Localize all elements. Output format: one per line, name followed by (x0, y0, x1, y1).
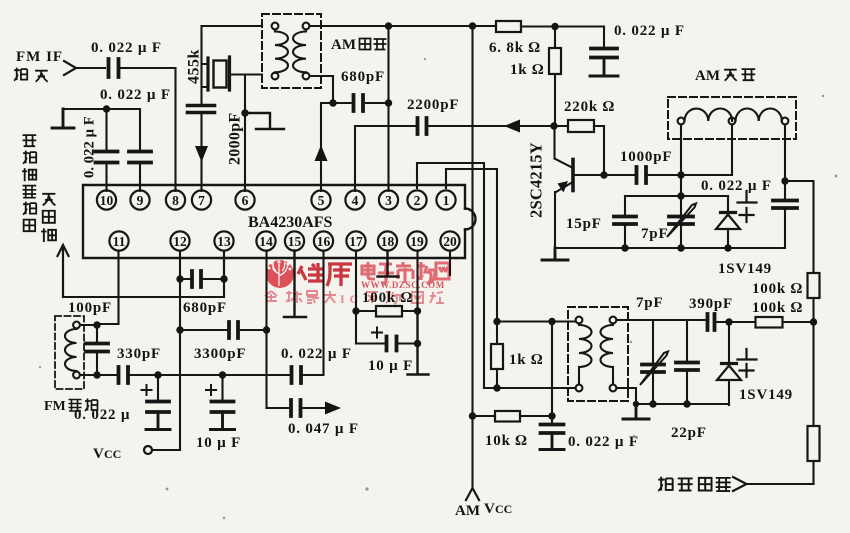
svg-text:7pF: 7pF (641, 226, 668, 242)
wire secondary top rail to 6.8k (310, 25, 497, 27)
node dot right (781, 177, 788, 184)
svg-text:CC: CC (495, 502, 512, 516)
svg-text:5: 5 (318, 193, 325, 208)
网 (412, 292, 423, 303)
ground pin18 (378, 251, 399, 277)
svg-text:AM: AM (695, 68, 720, 84)
electrolytic 10uF (221, 375, 223, 401)
node dot 100k junction (810, 318, 817, 325)
transformer AM IF secondary coil (293, 23, 309, 80)
AM antenna coil (678, 108, 789, 124)
svg-text:22pF: 22pF (671, 425, 707, 441)
label audio feedback vertical CJK (22, 135, 36, 231)
wire pin13/AGC row (63, 251, 224, 298)
svg-text:16: 16 (317, 234, 331, 249)
capacitor 3300pF (176, 326, 183, 333)
最 (307, 291, 319, 303)
stub pin20 (449, 251, 451, 276)
svg-text:0. 022 µ F: 0. 022 µ F (91, 40, 162, 56)
svg-text:1SV149: 1SV149 (739, 387, 793, 403)
svg-text:WWW.DZSC.COM: WWW.DZSC.COM (361, 280, 445, 290)
svg-text:100k Ω: 100k Ω (752, 300, 803, 316)
全球最大IC采购网站 row (265, 291, 336, 303)
node dot pin6 (241, 109, 248, 116)
resistor 100k pins17-19 (356, 310, 376, 312)
wire coil to nodes (80, 325, 97, 375)
resistor tuning divider vertical (812, 322, 814, 426)
电子市场网 (362, 262, 449, 284)
capacitor 0.022uF at pin9 (139, 109, 141, 191)
svg-text:10k Ω: 10k Ω (485, 433, 528, 449)
svg-text:1: 1 (443, 193, 450, 208)
pin 20 (440, 231, 459, 250)
node dot varactor line (677, 192, 684, 199)
varactor diode 1SV149 top (716, 191, 757, 248)
node dots on rail (621, 244, 628, 251)
svg-text:680pF: 680pF (341, 69, 385, 85)
resistor 1k bottom (496, 322, 498, 345)
capacitor 2000pF (188, 106, 215, 113)
transformer OSC right coil (600, 317, 616, 392)
wire antenna tap (681, 125, 732, 176)
resistor 220k feedback (554, 125, 568, 127)
大 (324, 291, 336, 303)
svg-text:14: 14 (259, 234, 273, 249)
pin 12 (170, 231, 189, 250)
全 (265, 291, 277, 302)
球 (286, 291, 302, 303)
ground pin15 (284, 251, 306, 318)
pin 14 (256, 231, 275, 250)
svg-text:6. 8k Ω: 6. 8k Ω (489, 40, 541, 56)
svg-text:19: 19 (410, 234, 424, 249)
wire secondary bottom to ground corner (617, 388, 637, 404)
capacitor 0.022uF at 10k with ground (551, 416, 553, 424)
wire antenna right terminal down (784, 125, 786, 201)
wire secondary top to tank (617, 319, 708, 321)
svg-text:3300pF: 3300pF (194, 346, 246, 362)
svg-text:13: 13 (217, 234, 231, 249)
node dot (103, 105, 110, 112)
capacitor 680pF top (354, 95, 364, 111)
Vcc terminal (144, 446, 152, 454)
svg-text:BA4230AFS: BA4230AFS (248, 214, 333, 231)
capacitor C 0.022uF top-left (109, 59, 119, 77)
pin 16 (314, 231, 333, 250)
网 (436, 263, 449, 279)
svg-text:IC: IC (340, 292, 363, 306)
svg-text:10 µ F: 10 µ F (196, 435, 241, 451)
node pins10/9 feedback wire (63, 108, 140, 110)
svg-text:100k Ω: 100k Ω (362, 290, 413, 306)
capacitor 390pF (708, 314, 715, 330)
pin 9 (130, 190, 149, 209)
resistor 100k vertical (808, 273, 820, 298)
wire pin11 to FM det tank (97, 251, 119, 325)
variable capacitor 7pF bottom (652, 320, 654, 364)
svg-text:100k Ω: 100k Ω (752, 281, 803, 297)
resonator 455k (202, 57, 263, 90)
capacitor 680pF pins12-13 (180, 251, 224, 280)
pin 8 (166, 190, 185, 209)
维库 (298, 263, 352, 286)
resistor 10k (473, 415, 496, 417)
wire varactor row (625, 195, 728, 197)
svg-text:2200pF: 2200pF (407, 97, 459, 113)
wire pin2 L line (417, 163, 484, 388)
node dot collector (550, 122, 557, 129)
维 (298, 263, 324, 281)
svg-text:FM: FM (44, 399, 66, 414)
wire secondary bottom to 680pF node (310, 76, 334, 103)
svg-text:390pF: 390pF (689, 296, 733, 312)
FM discriminator dashed box (55, 316, 84, 389)
node dot 1000pF junction (677, 171, 684, 178)
wire 2200pF to transistor node with left arrow (427, 125, 554, 127)
站 (430, 292, 444, 303)
varactor diode 1SV149 bottom (717, 322, 757, 405)
svg-text:AM: AM (455, 503, 480, 519)
svg-text:10 µ F: 10 µ F (368, 358, 413, 374)
wire pin19 (416, 251, 418, 312)
node dot 10k left (469, 412, 476, 419)
capacitor 330pF (119, 367, 129, 383)
采 (366, 291, 378, 303)
node dot 1k top (551, 23, 558, 30)
市 (396, 262, 413, 283)
pin 3 (379, 190, 398, 209)
svg-text:220k Ω: 220k Ω (564, 99, 615, 115)
wire pin12 to Vcc (153, 279, 181, 450)
node dot base (600, 171, 607, 178)
pin 5 (311, 190, 330, 209)
node dot 680pF right (385, 99, 392, 106)
wire AM Vcc vertical (471, 26, 473, 416)
svg-text:2: 2 (414, 193, 421, 208)
wire resonator right to pin6 (244, 75, 246, 192)
场 (418, 262, 435, 284)
svg-text:20: 20 (443, 234, 457, 249)
svg-text:4: 4 (352, 193, 359, 208)
terminal bar (audio feedback) (52, 109, 74, 128)
IC BA4230AFS box (83, 185, 476, 258)
pin 15 (285, 231, 304, 250)
electrolytic 10uF pins17-19 (356, 311, 386, 344)
svg-text:1k Ω: 1k Ω (509, 352, 543, 368)
ground stub near pin6 (245, 113, 284, 129)
svg-text:V: V (484, 501, 495, 517)
svg-text:15: 15 (288, 234, 302, 249)
capacitor 1000pF (604, 174, 635, 176)
capacitor 0.022uF to pin16 (292, 367, 302, 383)
capacitor 0.022uF at pin10 (105, 109, 107, 191)
svg-text:100pF: 100pF (68, 300, 112, 316)
svg-text:15pF: 15pF (566, 216, 602, 232)
capacitor 0.022uF top right with ground (603, 27, 605, 48)
node dots (493, 318, 500, 325)
库 (327, 264, 352, 286)
main audio rail (97, 374, 118, 376)
pin 6 (235, 190, 254, 209)
svg-text:3: 3 (385, 193, 392, 208)
svg-text:1000pF: 1000pF (620, 149, 672, 165)
resistor 1k top (554, 27, 556, 49)
pin 11 (109, 231, 128, 250)
svg-text:0. 022 µ F: 0. 022 µ F (82, 116, 98, 178)
FM discriminator coil (65, 322, 80, 379)
wire pin1 L line (446, 169, 497, 322)
svg-text:0. 047 µ F: 0. 047 µ F (288, 421, 359, 437)
wire to 100k chain (785, 181, 814, 273)
svg-text:V: V (93, 446, 104, 462)
svg-text:FM IF: FM IF (16, 49, 63, 65)
pin 1 (436, 190, 455, 209)
variable capacitor 7pF AM (669, 217, 693, 225)
FM IF input terminal (64, 61, 76, 75)
AM Vcc terminal (471, 416, 473, 489)
node dot 390pF junction (725, 318, 732, 325)
svg-text:11: 11 (113, 234, 126, 249)
tuning voltage terminal (733, 477, 747, 491)
pin 18 (378, 231, 397, 250)
wire pin14 / audio out (267, 251, 290, 409)
capacitor 0.022uF antenna (773, 201, 797, 209)
pin 19 (407, 231, 426, 250)
svg-text:6: 6 (242, 193, 249, 208)
wire resonator top rail (202, 26, 263, 105)
capacitor 100pF (96, 325, 98, 375)
svg-text:2000pF: 2000pF (227, 113, 244, 165)
svg-text:330pF: 330pF (117, 346, 161, 362)
pin 13 (214, 231, 233, 250)
svg-text:2SC4215Y: 2SC4215Y (527, 142, 546, 218)
svg-text:9: 9 (137, 193, 144, 208)
wire 2000pF to pin7 with arrow (200, 113, 202, 191)
svg-text:680pF: 680pF (183, 300, 227, 316)
子 (378, 264, 394, 283)
electrolytic 0.022u (157, 375, 159, 401)
svg-text:17: 17 (349, 234, 363, 249)
label tuning voltage (658, 477, 730, 491)
wire 1k-top node down (551, 322, 553, 417)
svg-text:8: 8 (172, 193, 179, 208)
wire pin3 vertical (387, 26, 389, 191)
AM antenna dashed box (668, 97, 796, 139)
transformer OSC dashed box (568, 307, 628, 401)
svg-text:AM: AM (331, 37, 356, 53)
wire C1 to pin8 corner (121, 68, 176, 191)
capacitor 2200pF (418, 118, 427, 134)
pin 10 (97, 190, 116, 209)
wire FM input to C1 (76, 67, 105, 69)
wire 2200pF row / pin4 (355, 126, 416, 191)
wire antenna left terminal down (680, 125, 682, 249)
capacitor 22pF (686, 320, 688, 362)
label to RF amp vertical CJK (41, 194, 56, 242)
wire primary bottom (484, 387, 576, 389)
ground pin19 chain (408, 311, 429, 375)
wire pin17 (355, 251, 357, 312)
pin 2 (407, 190, 426, 209)
svg-text:1SV149: 1SV149 (718, 261, 772, 277)
resistor 6.8k (496, 21, 521, 32)
svg-text:0. 022 µ F: 0. 022 µ F (100, 87, 171, 103)
pin 4 (345, 190, 364, 209)
wire node to pin5 with up arrow (321, 103, 333, 191)
capacitor 15pF (624, 196, 626, 216)
node dot 10k right (548, 412, 555, 419)
emitter ground rail (555, 247, 785, 249)
bottom tank rail (636, 403, 729, 405)
svg-text:12: 12 (173, 234, 187, 249)
pin 7 (192, 190, 211, 209)
购 (386, 292, 400, 304)
svg-text:10: 10 (100, 193, 114, 208)
svg-text:0. 022 µ F: 0. 022 µ F (614, 23, 685, 39)
node dot at x388 (385, 22, 392, 29)
node dot at x472 (469, 22, 476, 29)
node dot 680pF left (329, 99, 336, 106)
transformer AM IF dashed box (262, 14, 321, 88)
transformer AM IF primary coil (272, 23, 288, 80)
wire primary top to 1k node (497, 320, 576, 322)
resistor 100k horizontal (729, 321, 756, 323)
svg-text:0. 022 µ: 0. 022 µ (74, 407, 130, 423)
svg-text:7pF: 7pF (636, 295, 663, 311)
capacitor 0.047uF with arrow (291, 400, 301, 416)
svg-text:0. 022 µ F: 0. 022 µ F (281, 346, 352, 362)
svg-text:CC: CC (104, 447, 121, 461)
svg-text:1k Ω: 1k Ω (510, 62, 544, 78)
svg-text:0. 022 µ F: 0. 022 µ F (568, 434, 639, 450)
pin 17 (346, 231, 365, 250)
svg-text:0. 022 µ F: 0. 022 µ F (701, 178, 772, 194)
logo circle (266, 260, 294, 288)
transistor 2SC4215Y (555, 126, 605, 248)
电 (362, 262, 375, 279)
svg-text:18: 18 (381, 234, 395, 249)
ground at tank (623, 404, 649, 419)
svg-text:455k: 455k (186, 49, 203, 84)
arrow to RF amp (58, 245, 69, 297)
svg-text:7: 7 (198, 193, 205, 208)
transformer OSC left coil (576, 317, 592, 392)
